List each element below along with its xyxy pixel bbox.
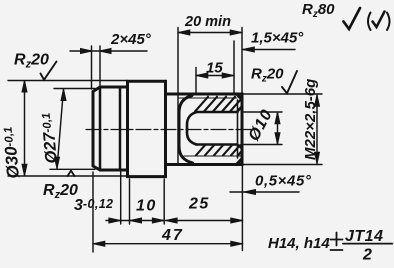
dimension Ø27-0,1 line (57, 89, 64, 169)
dimension Ø30-0,1 extension top (8, 80, 127, 82)
wire: Ø27 section outline (93, 87, 128, 170)
wire: broken-out section break curve (179, 96, 193, 164)
roughness tick top-left (41, 62, 57, 80)
wire: thread root line bottom (184, 155, 241, 157)
dimension Ø10 extension lines (244, 112, 282, 145)
svg-text:Rz80: Rz80 (302, 1, 335, 20)
wire: flange Ø30 outline (128, 81, 166, 176)
wire: hole Ø10 outline (187, 112, 238, 145)
bracketed tick: check (373, 12, 385, 28)
wire: thread root line top (178, 97, 237, 99)
svg-text:10: 10 (136, 198, 157, 215)
bracketed tick: ( (368, 13, 371, 31)
bracketed tick: ) (387, 13, 390, 31)
dimension 15 line (196, 75, 234, 77)
dimension Ø27-0,1 extension bottom (50, 168, 95, 170)
hatching bottom band (196, 145, 242, 155)
wire: hole end line (237, 100, 239, 158)
extension line right edge lower (241, 165, 243, 251)
wire: chamfer line 2x45 (99, 87, 102, 170)
svg-text:2×45°: 2×45° (110, 31, 152, 48)
svg-text:Rz20: Rz20 (14, 52, 49, 71)
svg-text:15: 15 (206, 60, 223, 77)
dimension 15 extension lines (196, 41, 234, 93)
svg-text:2: 2 (362, 247, 372, 264)
wire: threaded section M22 outline (166, 94, 243, 165)
dimension Ø30-0,1 line (24, 81, 26, 176)
big roughness tick top-right (344, 8, 361, 29)
dimension 1,5x45 leader (243, 49, 296, 51)
wire: thread end line (177, 94, 179, 165)
roughness tick bottom-left (68, 171, 75, 176)
centerline (86, 129, 251, 131)
dimension 47 line (93, 243, 243, 245)
dimension Ø27-0,1 extension top (54, 88, 95, 90)
svg-text:47: 47 (161, 227, 184, 244)
dimension Ø30-0,1 extension bottom (8, 175, 127, 177)
svg-text:Rz20: Rz20 (251, 66, 284, 85)
plus-minus sign (331, 233, 343, 251)
dimension M22 extension lines (243, 94, 322, 165)
wire: groove edge line (119, 87, 122, 170)
extension line left edge lower (92, 172, 94, 252)
svg-text:JT14: JT14 (345, 228, 383, 245)
dimension 2x45 extension lines (92, 46, 101, 89)
wire: hole mouth chamfers (238, 108, 243, 150)
svg-text:H14, h14: H14, h14 (268, 235, 330, 252)
dimension 2x45 line (70, 50, 147, 52)
svg-text:M22×2,5-6g: M22×2,5-6g (302, 79, 319, 160)
dimension 20min extension lines (178, 28, 242, 94)
fraction bar IT14/2 (343, 243, 392, 245)
svg-text:20 min: 20 min (184, 14, 231, 30)
dimension chain line 3 / 10 / 25 (106, 220, 243, 222)
dimension Ø10 line (277, 113, 279, 145)
svg-text:1,5×45°: 1,5×45° (251, 30, 304, 47)
extension lines groove and flange lower (121, 172, 165, 224)
roughness tick right (282, 71, 297, 93)
hatching top band (195, 97, 242, 156)
dimension 20min line (178, 32, 242, 34)
svg-text:25: 25 (188, 196, 210, 213)
svg-text:0,5×45°: 0,5×45° (255, 173, 312, 190)
dimension M22 line (316, 95, 318, 164)
dimension 0,5x45 leader (230, 191, 299, 193)
svg-text:Rz20: Rz20 (43, 182, 78, 201)
